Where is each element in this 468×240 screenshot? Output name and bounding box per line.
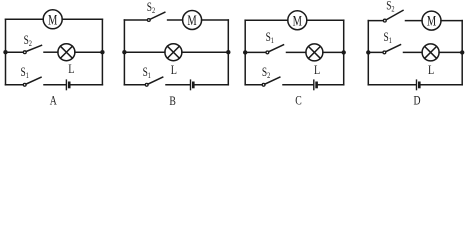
wire: A bottom right segment [71, 84, 103, 86]
motor M (circuit B) [183, 11, 202, 30]
wire: A middle left segment [6, 51, 24, 53]
node: C middle-right junction [342, 50, 346, 54]
switch S2 (circuit D, top branch) [383, 19, 386, 22]
wire: A top right segment [62, 18, 102, 20]
switch S2 (circuit C, bottom branch) [262, 83, 265, 86]
svg-text:A: A [50, 94, 58, 108]
switch S2 (circuit A, middle branch) [23, 51, 26, 54]
node: D middle-right junction [460, 50, 464, 54]
lamp L (circuit C) [306, 44, 323, 61]
wire: B top right segment [202, 19, 229, 21]
svg-text:S2: S2 [147, 1, 156, 15]
node: B middle-left junction [122, 50, 126, 54]
wire: C middle segment switch-to-lamp [287, 51, 306, 53]
svg-text:L: L [171, 63, 177, 77]
wire: B bottom segment switch-to-battery [166, 84, 190, 86]
battery (circuit C) [313, 80, 315, 90]
lamp L (circuit B) [165, 44, 182, 61]
wire: D left vertical [367, 21, 369, 85]
wire: A bottom left segment [6, 84, 24, 86]
node: A middle-right junction [100, 50, 104, 54]
svg-text:M: M [187, 11, 197, 28]
wire: D top right segment [441, 20, 462, 22]
wire: D top segment switch-to-motor [406, 20, 423, 22]
wire: A middle right segment [75, 51, 103, 53]
svg-text:S2: S2 [24, 34, 33, 48]
wire: B middle left segment [124, 51, 164, 53]
wire: B middle right segment [182, 51, 228, 53]
svg-text:S1: S1 [266, 31, 275, 45]
wire: C top left segment [245, 19, 288, 21]
wire: C middle right segment [323, 51, 344, 53]
wire: A right vertical [101, 19, 103, 85]
wire: D top left segment [368, 20, 383, 22]
switch S1 (circuit D, middle branch) [383, 51, 386, 54]
switch S1 (circuit A, bottom branch) [23, 83, 26, 86]
node: D middle-left junction [366, 50, 370, 54]
switch S1 (circuit C, middle branch) [266, 51, 269, 54]
svg-text:S1: S1 [21, 66, 30, 80]
svg-text:L: L [68, 62, 74, 76]
svg-text:B: B [169, 95, 176, 109]
wire: C top right segment [307, 19, 344, 21]
svg-text:S2: S2 [262, 66, 271, 80]
svg-text:S1: S1 [143, 66, 152, 80]
node: B middle-right junction [226, 50, 230, 54]
svg-text:S2: S2 [386, 0, 395, 14]
motor U=M (circuit A) [43, 10, 62, 29]
svg-text:L: L [428, 63, 434, 77]
battery (circuit D) [416, 80, 418, 90]
svg-text:C: C [295, 94, 302, 108]
wire: B bottom right segment [195, 84, 229, 86]
wire: C bottom segment switch-to-battery [283, 84, 313, 86]
svg-text:D: D [414, 94, 421, 108]
wire: D bottom segment right of battery [421, 84, 463, 86]
wire: B right vertical [227, 20, 229, 85]
wire: C bottom left segment [245, 84, 262, 86]
wire: B top segment switch-to-motor [168, 19, 183, 21]
svg-text:S1: S1 [384, 31, 393, 45]
node: C middle-left junction [243, 50, 247, 54]
wire: C right vertical [343, 20, 345, 85]
wire: B top left segment [124, 19, 147, 21]
svg-text:M: M [48, 10, 58, 27]
wire: D right vertical [461, 21, 463, 85]
svg-text:M: M [293, 11, 303, 28]
node: A middle-left junction [3, 50, 7, 54]
motor M (circuit D) [422, 11, 441, 30]
wire: D middle segment switch-to-lamp [404, 51, 423, 53]
lamp L (circuit A) [58, 44, 75, 61]
wire: D middle left segment [368, 51, 383, 53]
wire: A top left segment [6, 18, 44, 20]
wire: C bottom right segment [318, 84, 344, 86]
wire: D middle right segment [439, 51, 462, 53]
battery (circuit B) [190, 80, 192, 90]
wire: B bottom left segment [124, 84, 145, 86]
battery (circuit A) [65, 80, 67, 90]
wire: A middle segment switch-to-lamp [44, 51, 58, 53]
wire: C left vertical [244, 20, 246, 85]
wire: C middle left segment [245, 51, 266, 53]
svg-text:M: M [427, 12, 437, 29]
wire: D bottom segment left of battery [368, 84, 415, 86]
svg-text:L: L [314, 63, 320, 77]
wire: A left vertical [5, 19, 7, 85]
switch S1 (circuit B, bottom branch) [145, 83, 148, 86]
wire: A bottom segment switch-to-battery [44, 84, 66, 86]
wire: B left vertical [123, 20, 125, 85]
switch S2 (circuit B, top branch) [147, 19, 150, 22]
motor M (circuit C) [288, 11, 307, 30]
lamp L (circuit D) [422, 44, 439, 61]
